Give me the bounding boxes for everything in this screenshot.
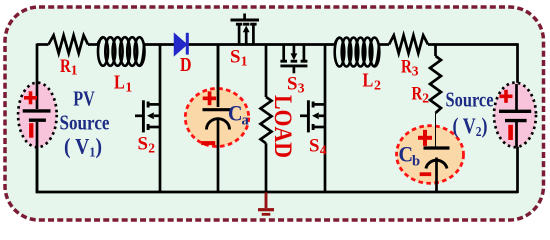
inductor L1 (98, 37, 145, 66)
capacitor Ca blob (185, 89, 248, 147)
PV source V1 ellipse (18, 83, 57, 148)
svg-text:( V1): ( V1) (64, 134, 102, 161)
capacitor Cb symbol (424, 113, 450, 193)
svg-text:b: b (412, 154, 420, 170)
mosfet S1 (231, 14, 260, 46)
svg-text:PV: PV (73, 87, 95, 111)
svg-text:1: 1 (71, 63, 78, 78)
resistor R3 (389, 35, 428, 53)
Ca minus mark (201, 141, 215, 145)
resistor R1 (49, 35, 89, 53)
Cb minus mark (420, 172, 432, 176)
svg-text:LOAD: LOAD (269, 95, 296, 158)
diode D (175, 33, 189, 55)
svg-text:C: C (399, 142, 414, 167)
svg-text:3: 3 (298, 81, 305, 96)
V1 plus mark (24, 91, 37, 104)
resistor R2 (430, 56, 441, 113)
svg-text:1: 1 (125, 81, 132, 96)
svg-text:2: 2 (374, 79, 381, 94)
wire R2 top (434, 45, 437, 57)
wire V2 corner (516, 43, 519, 193)
svg-text:Source: Source (60, 111, 110, 135)
source V2 ellipse (494, 83, 536, 148)
mosfet S2 (135, 100, 160, 132)
svg-text:S: S (230, 47, 241, 68)
svg-text:4: 4 (320, 143, 327, 158)
inductor L2 (335, 38, 380, 67)
V1 minus tick (29, 123, 33, 138)
svg-text:2: 2 (148, 141, 155, 156)
label Source (V2) (446, 88, 494, 141)
svg-text:S: S (287, 74, 298, 95)
top rail wire segments (37, 43, 517, 46)
ground (258, 193, 274, 215)
svg-text:L: L (363, 70, 374, 92)
svg-text:L: L (114, 72, 125, 94)
svg-text:1: 1 (241, 54, 248, 69)
wire S4 branch (324, 45, 327, 194)
mosfet S3 (280, 45, 307, 74)
capacitor Cb blob (397, 126, 464, 184)
node junction to Ca (217, 45, 220, 110)
svg-text:3: 3 (412, 64, 419, 79)
Cb plus mark (418, 130, 432, 146)
svg-text:C: C (228, 101, 243, 126)
svg-text:D: D (180, 54, 192, 76)
svg-text:2: 2 (422, 91, 429, 106)
capacitor Ca symbol (203, 44, 233, 193)
load resistor (261, 45, 272, 193)
source V2 battery (499, 84, 531, 147)
svg-text:Source: Source (446, 88, 494, 112)
PV source V1 battery (23, 82, 51, 192)
wire Ca branch upper (217, 45, 220, 110)
svg-text:R: R (401, 57, 412, 78)
svg-text:S: S (138, 134, 149, 155)
Ca plus mark (203, 91, 216, 105)
mosfet S4 (300, 100, 325, 132)
wire S2 branch (159, 45, 162, 194)
svg-text:R: R (412, 84, 423, 105)
svg-text:R: R (60, 56, 71, 77)
svg-text:S: S (309, 136, 320, 157)
label PV Source (V1) (60, 87, 110, 161)
bottom rail wire (36, 191, 518, 194)
V2 minus tick (508, 125, 513, 140)
left rail wire (36, 44, 39, 194)
V2 plus mark (500, 90, 513, 103)
svg-text:a: a (242, 113, 250, 129)
svg-text:( V2): ( V2) (453, 113, 488, 140)
